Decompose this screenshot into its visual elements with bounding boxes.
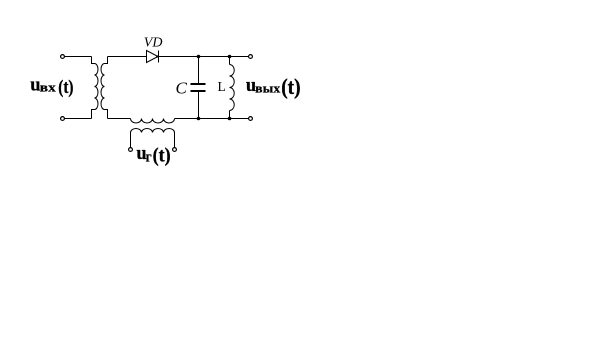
svg-text:(t): (t) (153, 143, 171, 166)
svg-text:(t): (t) (281, 75, 300, 100)
svg-text:C: C (176, 79, 188, 98)
svg-text:(t): (t) (58, 76, 73, 97)
svg-text:VD: VD (144, 36, 163, 51)
svg-text:L: L (218, 79, 226, 94)
svg-text:вх: вх (40, 81, 57, 95)
svg-text:г: г (146, 150, 152, 166)
svg-text:вых: вых (255, 82, 281, 96)
